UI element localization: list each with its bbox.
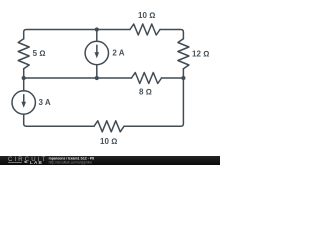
junction node at 2A top	[95, 27, 99, 31]
logo bolt mark	[24, 161, 28, 162]
current source 2A circle	[85, 41, 108, 64]
wire 3A bottom lead and bottom-left corner	[24, 114, 94, 126]
svg-text:8 Ω: 8 Ω	[139, 87, 152, 96]
arrow of 3A source	[23, 94, 25, 102]
resistor 10ohm top	[130, 24, 160, 35]
svg-text:2 A: 2 A	[112, 48, 124, 57]
svg-text:5 Ω: 5 Ω	[33, 49, 46, 58]
current source 3A circle	[12, 91, 35, 114]
svg-text:LAB: LAB	[30, 160, 43, 165]
resistor 12ohm right	[178, 39, 189, 69]
logo underline dash	[8, 161, 22, 164]
arrow of 2A source	[96, 45, 98, 53]
svg-text:3 A: 3 A	[39, 98, 51, 107]
resistor 10ohm bottom	[94, 121, 124, 132]
wire middle left segment	[24, 77, 132, 79]
wire 12ohm bottom lead	[182, 69, 184, 78]
wire bottom-right segment and right column	[124, 78, 183, 126]
wire 2A bottom lead	[96, 65, 98, 78]
svg-text:12 Ω: 12 Ω	[192, 50, 209, 59]
wire middle right segment	[162, 77, 184, 79]
wire top-right segment with corner	[160, 30, 183, 39]
wire 3A top lead	[23, 78, 25, 91]
svg-text:10 Ω: 10 Ω	[138, 11, 155, 20]
junction node at 2A bottom	[95, 76, 99, 80]
wire 5ohm bottom lead	[23, 69, 25, 78]
svg-text:http://circuitlab.com/c/qtgmkw: http://circuitlab.com/c/qtgmkw	[49, 160, 93, 164]
junction node at right middle	[181, 76, 185, 80]
svg-text:10 Ω: 10 Ω	[100, 137, 117, 146]
junction node at left middle	[22, 76, 26, 80]
resistor 8ohm middle	[132, 73, 162, 84]
wire 2A top lead	[96, 30, 98, 42]
resistor 5ohm left	[18, 39, 29, 69]
wire top-left corner and top wire	[24, 30, 130, 39]
